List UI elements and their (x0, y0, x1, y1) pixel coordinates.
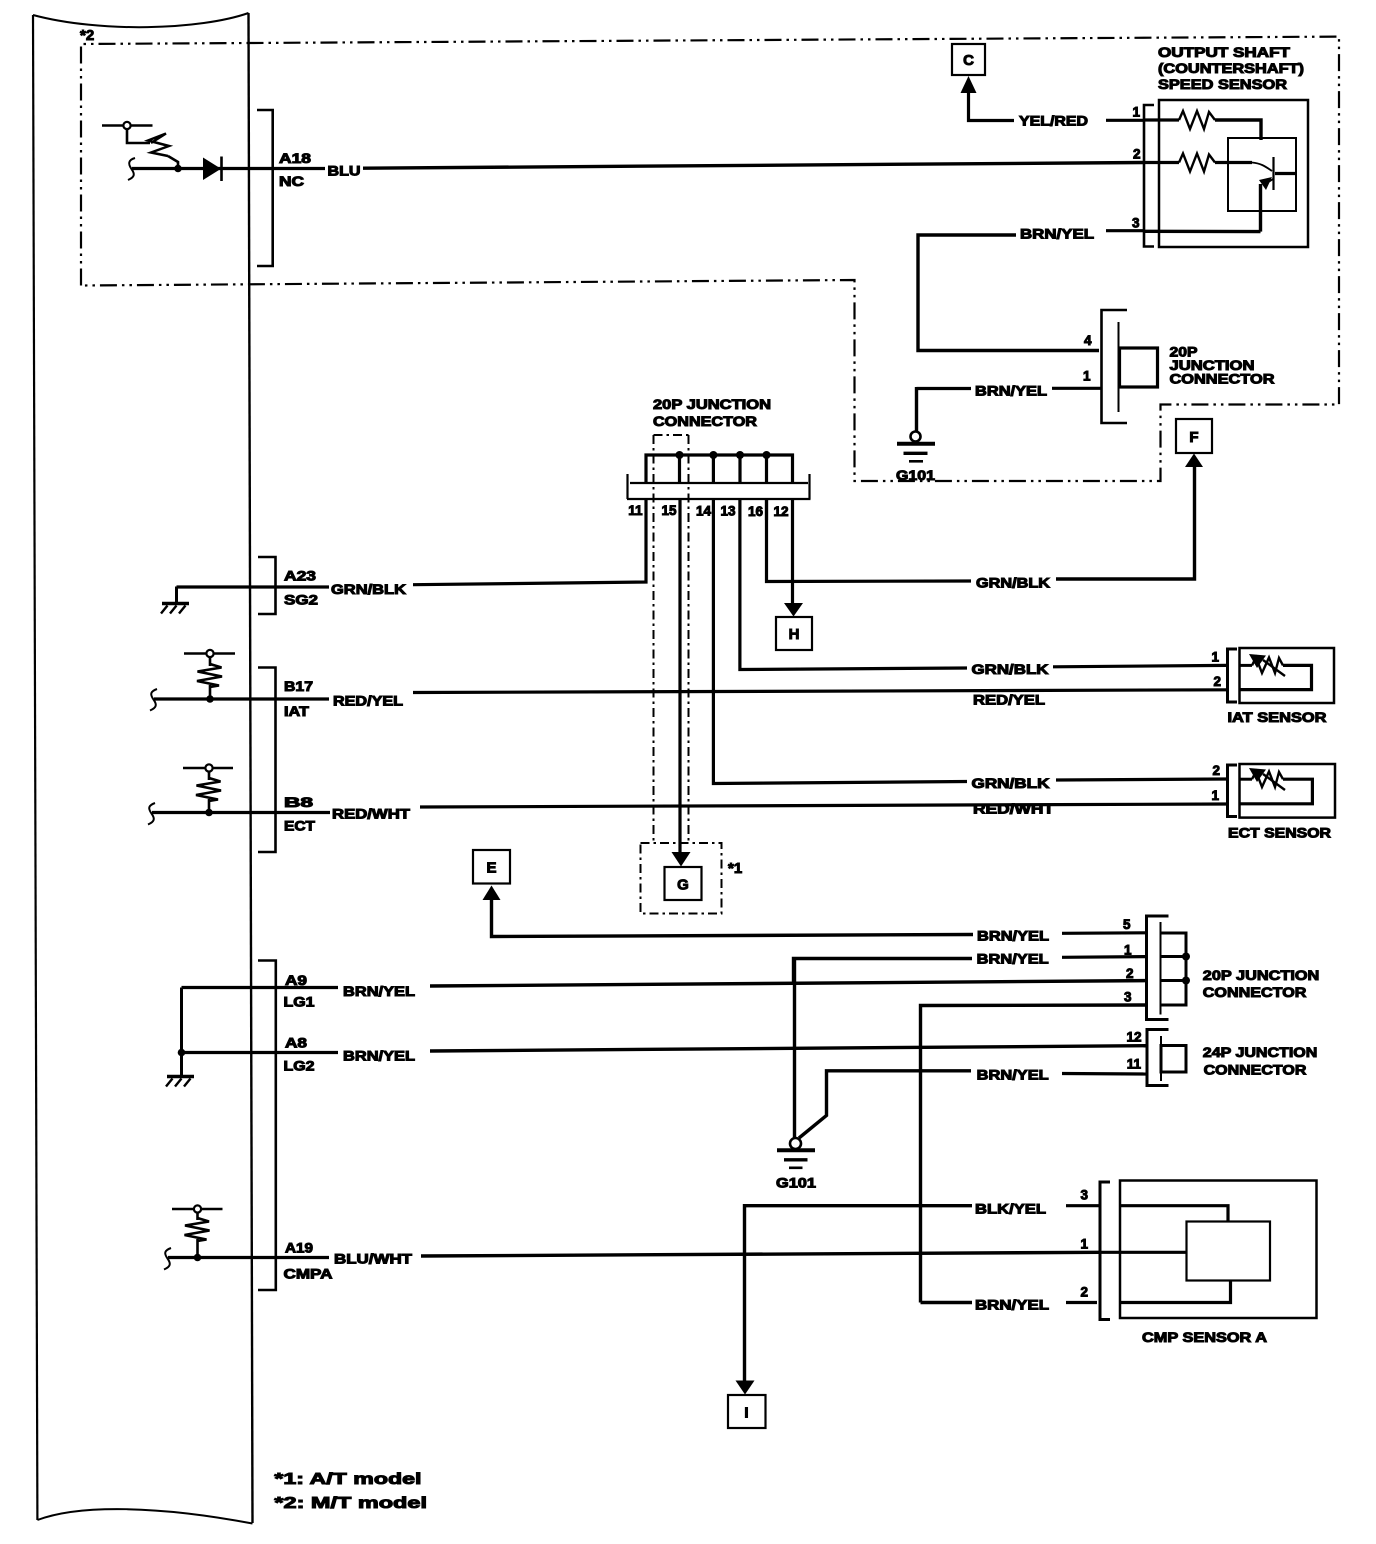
svg-text:RED/WHT: RED/WHT (332, 807, 411, 822)
svg-text:15: 15 (661, 503, 677, 518)
connector ref box I (728, 1395, 766, 1428)
svg-text:1: 1 (1080, 1237, 1088, 1252)
IAT connector bracket (1228, 649, 1238, 702)
A18 internal top line (102, 124, 153, 127)
wire YEL/RED to C (969, 91, 1015, 121)
ECT connector bracket (1228, 765, 1238, 817)
speed sensor connector bracket (1144, 105, 1154, 247)
24P junction connector bracket (1147, 1030, 1169, 1086)
svg-text:ECT: ECT (284, 819, 316, 834)
M/T model *2 dash-dot boundary (81, 37, 1339, 481)
svg-text:2: 2 (1212, 763, 1220, 778)
CMP internal pin1 wire (1100, 1251, 1187, 1254)
A19 internal top line (172, 1208, 223, 1211)
svg-text:BLU/WHT: BLU/WHT (334, 1252, 413, 1267)
svg-text:LG1: LG1 (284, 995, 316, 1010)
connector ref box E (473, 850, 510, 884)
svg-text:C: C (963, 52, 974, 69)
20P junction connector (right) bus comb (1161, 933, 1187, 1005)
bus junction dots (676, 451, 684, 459)
svg-text:2: 2 (1080, 1285, 1088, 1300)
wire BLU/WHT long run to CMP pin 1 (421, 1252, 1100, 1256)
wire BRN/YEL from sensor pin 3 (1106, 229, 1144, 232)
wire B17/IAT (154, 697, 329, 700)
CMP connector bracket (1100, 1182, 1110, 1320)
bus dots (20P right) (1182, 953, 1190, 961)
24P junction connector inner bar (1160, 1036, 1162, 1081)
wire A9/LG1 from ECM ground (182, 986, 339, 989)
svg-text:4: 4 (1084, 333, 1092, 348)
svg-text:12: 12 (1126, 1030, 1141, 1045)
wire break squiggle at A18 wire left end (128, 158, 135, 180)
svg-text:1: 1 (1124, 943, 1132, 958)
svg-text:24P JUNCTION: 24P JUNCTION (1203, 1045, 1318, 1060)
CMP internal element box (1187, 1222, 1271, 1281)
20P junction connector (top) inner bar (1118, 322, 1120, 412)
svg-text:A19: A19 (285, 1241, 313, 1256)
B17 internal: open terminal (206, 650, 213, 657)
svg-text:RED/YEL: RED/YEL (973, 693, 1045, 708)
base lead into transistor (1215, 161, 1252, 164)
wire 20P pin 3 to CMP drop (921, 1005, 1148, 1303)
A/T dash-dot box around G (641, 843, 722, 914)
wire ground drop from pin1 tap to G101 (793, 959, 796, 1140)
arrow into I (736, 1381, 755, 1395)
svg-text:(COUNTERSHAFT): (COUNTERSHAFT) (1158, 61, 1304, 76)
wire pin 11 down to SG2 run (413, 499, 646, 585)
junction connector body (627, 474, 811, 499)
A18 internal circuit: open terminal (123, 122, 130, 129)
transistor Q1 base curve (1252, 163, 1272, 172)
emitter drop wire (1259, 184, 1262, 232)
resistor (A18 internal) (148, 134, 169, 157)
A/T dash-dot enclosure for pin 15 wire (654, 435, 689, 843)
wire from F down to GRN/BLK run (1056, 465, 1195, 579)
wire GRN/BLK to ECT pin 2 (1056, 779, 1227, 780)
wire break squiggle (B8) (148, 803, 155, 825)
B8 internal top line (183, 767, 233, 770)
resistor R1 (speed sensor) (1179, 111, 1215, 129)
wire BRN/YEL to JC pin 1 (917, 387, 972, 390)
svg-text:A23: A23 (284, 569, 317, 584)
transistor Q1 emitter with arrow (1264, 179, 1273, 185)
wire BRN/YEL to 20P pin 5 (1062, 931, 1147, 935)
connector bracket B17/B8 (258, 668, 276, 853)
svg-text:3: 3 (1080, 1188, 1088, 1203)
svg-text:3: 3 (1124, 990, 1132, 1005)
resistor R2 (speed sensor) (1179, 154, 1215, 172)
ECT internal loop (1240, 779, 1312, 804)
ECM/PCM left band left edge (33, 15, 37, 1520)
svg-text:2: 2 (1126, 966, 1134, 981)
arrow into F (1185, 454, 1203, 468)
svg-text:A8: A8 (285, 1036, 308, 1051)
ECM/PCM left band bottom wavy edge (37, 1509, 252, 1523)
arrow into G (672, 852, 691, 867)
wire A8/LG2 (182, 1051, 339, 1054)
svg-text:1: 1 (1083, 369, 1091, 384)
arrow into H (784, 603, 803, 617)
connector bracket A9/A8/A19 (258, 961, 276, 1291)
svg-text:I: I (744, 1405, 748, 1422)
svg-text:IAT: IAT (284, 704, 310, 719)
svg-text:BRN/YEL: BRN/YEL (343, 984, 415, 999)
svg-text:BRN/YEL: BRN/YEL (343, 1049, 415, 1064)
svg-text:CONNECTOR: CONNECTOR (1170, 372, 1275, 387)
wire BRN/YEL long run to 24P pin 12 (430, 1046, 1147, 1051)
svg-text:CMPA: CMPA (284, 1267, 333, 1282)
wire GRN/BLK from junction pin 16 (767, 498, 972, 582)
A23 ground inside ECM (175, 587, 178, 603)
svg-text:*2: *2 (80, 27, 94, 44)
resistor lead to junction (168, 156, 178, 167)
wire A9/A8 ground tie (180, 988, 183, 1076)
IAT sensor box (1240, 648, 1335, 703)
resistor lead (196, 1239, 199, 1255)
wire A18 to diode and bracket (BLU) (132, 167, 325, 170)
wire BLK/YEL to CMP pin 3 (1066, 1204, 1100, 1207)
svg-text:B8: B8 (284, 795, 314, 810)
wire BRN/YEL to CMP pin 2 (1066, 1301, 1097, 1304)
ECM/PCM left band top wavy edge (33, 13, 249, 27)
wire A19/CMPA (168, 1256, 329, 1259)
svg-text:RED/YEL: RED/YEL (333, 694, 403, 709)
ECT sensor box (1240, 764, 1336, 818)
svg-text:2: 2 (1133, 147, 1141, 162)
resistor (A19 internal) (185, 1218, 210, 1241)
wire pin 14 down to ECT GRN/BLK (713, 499, 967, 784)
wire break squiggle (A19) (164, 1248, 171, 1270)
connector bracket A23/SG2 (258, 557, 276, 614)
svg-text:GRN/BLK: GRN/BLK (976, 576, 1050, 591)
wire pin 15 down to G (A/T) (678, 499, 681, 853)
wire pin 12 down to H (791, 499, 794, 604)
speed sensor outer box (1159, 100, 1308, 247)
svg-text:CONNECTOR: CONNECTOR (653, 414, 757, 429)
svg-text:GRN/BLK: GRN/BLK (972, 662, 1049, 677)
svg-text:2: 2 (1213, 674, 1221, 689)
resistor (B17 pull-up) (197, 664, 222, 687)
svg-text:CONNECTOR: CONNECTOR (1203, 985, 1307, 1000)
svg-text:BLK/YEL: BLK/YEL (975, 1202, 1046, 1217)
connector ref box H (776, 617, 812, 650)
ground G101 (bottom) circle (790, 1138, 801, 1149)
svg-text:IAT SENSOR: IAT SENSOR (1228, 710, 1327, 725)
junction node on A19 wire (194, 1254, 202, 1262)
svg-text:A18: A18 (279, 151, 312, 166)
20P junction connector (top) body square (1120, 348, 1158, 387)
transistor Q1 collector (1275, 172, 1296, 175)
svg-text:GRN/BLK: GRN/BLK (331, 582, 406, 597)
sensor pin3 wire inside box (1144, 230, 1261, 234)
svg-text:16: 16 (748, 504, 764, 519)
junction node on B17 wire (206, 695, 214, 703)
wire YEL/RED to sensor pin 1 (1106, 119, 1144, 122)
wire from E down and right (BRN/YEL pin 5) (492, 898, 974, 937)
junction connector bus bar (646, 455, 793, 483)
svg-text:H: H (789, 626, 800, 643)
svg-text:BRN/YEL: BRN/YEL (1020, 227, 1094, 242)
resistor lead (208, 799, 211, 811)
ground G101 (bottom) bars (777, 1148, 815, 1152)
svg-text:RED/WHT: RED/WHT (973, 802, 1055, 817)
diode D (M/T) (203, 158, 221, 181)
wire BRN/YEL from G101 to 24P pin 11 (799, 1071, 971, 1138)
thermistor (IAT) (1252, 658, 1283, 674)
B17 internal top line (184, 652, 235, 655)
svg-text:F: F (1189, 429, 1198, 446)
CMP internal pin2 wire (1121, 1281, 1231, 1303)
svg-text:GRN/BLK: GRN/BLK (972, 776, 1050, 791)
svg-text:*1: A/T model: *1: A/T model (274, 1471, 421, 1488)
wire BRN/YEL text to JC pin1 (1052, 387, 1101, 390)
B17 internal lead (209, 657, 212, 666)
svg-text:BRN/YEL: BRN/YEL (977, 929, 1049, 944)
B8 internal: open terminal (205, 764, 212, 771)
wire pin 13 down to IAT GRN/BLK (740, 499, 967, 670)
IAT internal loop (1240, 665, 1312, 689)
20P junction connector (right) inner bar (1160, 922, 1162, 1015)
transistor box Q1 (1228, 138, 1296, 211)
A18 internal lead (127, 129, 150, 143)
wire elbow down to ground G101 (915, 387, 918, 431)
A19 internal: open terminal (194, 1205, 201, 1212)
svg-text:BLU: BLU (328, 164, 361, 179)
connector ref box C (952, 44, 985, 75)
ECT internal top wire (1240, 778, 1252, 781)
A19 internal lead (196, 1213, 199, 1221)
24P junction connector body square (1161, 1046, 1186, 1073)
wire BLU long run to speed sensor pin 2 (363, 163, 1144, 169)
arrow into C (961, 76, 977, 93)
svg-text:BRN/YEL: BRN/YEL (977, 952, 1049, 967)
resistor lead (209, 685, 212, 697)
wire A23/SG2 (177, 585, 330, 588)
svg-text:ECT SENSOR: ECT SENSOR (1228, 826, 1331, 841)
junction node on B8 wire (205, 809, 213, 817)
wire BRN/YEL tap to 20P pin 1 (794, 959, 973, 985)
svg-text:A9: A9 (285, 973, 307, 988)
wire BRN/YEL to 24P pin 11 (1062, 1072, 1147, 1076)
junction node (A8 ground) (178, 1049, 186, 1057)
wire R1 to collector drop (1215, 120, 1261, 140)
connector ref box F (1176, 419, 1212, 453)
svg-text:20P JUNCTION: 20P JUNCTION (1203, 968, 1320, 983)
wire BLK/YEL elbow (CMP pin 3 to I) (745, 1206, 973, 1381)
svg-text:*1: *1 (728, 860, 742, 877)
ECM/PCM left band right edge (249, 13, 253, 1523)
svg-text:E: E (486, 860, 496, 877)
junction node on A18 wire (174, 165, 182, 173)
wire break squiggle (B17) (150, 689, 157, 711)
wire BRN/YEL elbow down to JC pin 4 (918, 235, 1099, 351)
20P junction connector (top) bracket (1102, 310, 1128, 423)
chassis ground (A23) (162, 602, 189, 606)
svg-text:CONNECTOR: CONNECTOR (1204, 1063, 1307, 1078)
CMP internal pin3 wire (1121, 1206, 1228, 1222)
thermistor arrow (ECT) (1263, 774, 1285, 790)
svg-text:YEL/RED: YEL/RED (1019, 114, 1088, 129)
svg-text:BRN/YEL: BRN/YEL (977, 1068, 1049, 1083)
svg-text:LG2: LG2 (284, 1059, 315, 1074)
20P junction connector (right) bracket (1147, 916, 1169, 1020)
B8 internal lead (208, 772, 211, 781)
svg-text:SG2: SG2 (284, 593, 318, 608)
sensor pin2 wire to resistor (1144, 161, 1179, 164)
wire pin 16 down (to GRN/BLK F run) (765, 499, 768, 520)
connector bracket A18/NC (257, 110, 273, 266)
thermistor (ECT) (1252, 772, 1283, 788)
wire BRN/YEL long run to 20P pin 2 (430, 981, 1147, 986)
svg-text:CMP SENSOR A: CMP SENSOR A (1142, 1330, 1267, 1345)
wire B8/ECT (152, 811, 330, 814)
ground G101 (top) circle (911, 432, 921, 442)
svg-text:11: 11 (628, 503, 643, 518)
diode bar (220, 157, 223, 182)
svg-text:BRN/YEL: BRN/YEL (975, 384, 1047, 399)
svg-text:14: 14 (696, 504, 712, 519)
svg-text:3: 3 (1132, 216, 1140, 231)
svg-text:*2: M/T model: *2: M/T model (274, 1495, 427, 1512)
svg-text:20P JUNCTION: 20P JUNCTION (653, 397, 771, 412)
svg-text:OUTPUT SHAFT: OUTPUT SHAFT (1158, 45, 1291, 60)
thermistor arrow (IAT) (1263, 660, 1285, 676)
svg-text:G101: G101 (776, 1176, 817, 1191)
svg-text:5: 5 (1123, 917, 1131, 932)
svg-text:NC: NC (279, 174, 304, 189)
svg-text:1: 1 (1211, 788, 1219, 803)
svg-text:12: 12 (773, 504, 788, 519)
wire GRN/BLK to IAT pin 1 (1053, 665, 1227, 666)
resistor (B8 pull-up) (196, 778, 221, 801)
ground G101 (top) bars (897, 442, 935, 446)
transistor Q1 base bar (1272, 157, 1274, 190)
arrow into E (483, 886, 501, 901)
wire BRN/YEL from pin3 drop to CMP pin 2 (921, 1301, 973, 1304)
svg-text:SPEED SENSOR: SPEED SENSOR (1158, 77, 1287, 92)
svg-text:11: 11 (1127, 1057, 1142, 1072)
svg-text:G: G (677, 877, 689, 894)
chassis ground (A9/A8) (167, 1075, 194, 1079)
svg-text:B17: B17 (284, 679, 313, 694)
wire BRN/YEL to 20P pin 1 (1062, 955, 1147, 959)
sensor pin1 wire to resistor (1144, 118, 1179, 121)
svg-text:1: 1 (1211, 650, 1219, 665)
IAT internal top wire (1240, 664, 1252, 667)
svg-text:BRN/YEL: BRN/YEL (975, 1298, 1049, 1313)
svg-text:13: 13 (720, 504, 736, 519)
wire RED/YEL long run to IAT pin 2 (413, 690, 1227, 693)
wire RED/WHT long run to ECT pin 1 (420, 804, 1227, 807)
svg-text:1: 1 (1132, 105, 1140, 120)
connector ref box G (665, 867, 702, 900)
CMP sensor A box (1120, 1181, 1317, 1319)
svg-text:G101: G101 (896, 468, 936, 483)
